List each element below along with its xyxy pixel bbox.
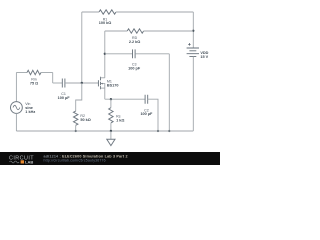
svg-text:http://circuitlab.com/c5rc5aut: http://circuitlab.com/c5rc5auty36776	[44, 159, 106, 163]
junction: R2 meets bottom rail	[75, 130, 77, 132]
wire: R2 bottom lead to bottom rail	[75, 125, 77, 131]
resistor RD	[127, 29, 143, 33]
wire: C3 row right segment to output corner	[135, 53, 169, 55]
wire: Rin row right lead to corner	[41, 72, 53, 74]
wire: Rs bottom lead to bottom rail	[110, 123, 112, 131]
voltage source Vin circle	[11, 102, 23, 114]
footer logo orange mark	[21, 160, 24, 163]
svg-text:1 kΩ: 1 kΩ	[116, 118, 124, 122]
wire: R2 drop with jog from gate node	[76, 83, 82, 111]
footer bar	[0, 152, 220, 165]
wire: Rin left vertical from Vin top	[15, 73, 17, 102]
wire: top row right segment from R1 to right rail	[116, 11, 193, 13]
svg-text:100 pF: 100 pF	[128, 66, 141, 70]
svg-text:75 Ω: 75 Ω	[30, 81, 38, 85]
wire: bottom rail	[16, 130, 193, 132]
resistor Rs	[109, 108, 113, 123]
svg-text:100 µF: 100 µF	[58, 96, 71, 100]
wire: top row left segment (R1 row, from corner to zigzag)	[82, 11, 99, 13]
junction: gate node (R1, C1, R2, gate)	[81, 82, 83, 84]
MOSFET M1 body stub with source tie	[101, 84, 105, 89]
wire: RD row left lead from drain vertical	[105, 30, 127, 32]
svg-text:2.2 kΩ: 2.2 kΩ	[129, 40, 141, 44]
wire: C1 row right segment to MOSFET gate	[65, 82, 98, 84]
wire: Vin bottom vertical to bottom rail	[15, 113, 17, 131]
junction: ground taps bottom rail	[110, 130, 112, 132]
wire: corner down from Rin row to C1 row	[52, 73, 54, 84]
junction: C3 branch meets bottom rail	[168, 130, 170, 132]
junction: Rs taps source row	[110, 98, 112, 100]
battery VDD plates	[187, 48, 199, 56]
ground stem	[110, 131, 112, 139]
MOSFET M1 source stub	[101, 87, 105, 89]
svg-text:100 µF: 100 µF	[140, 112, 153, 116]
resistor Rs top lead	[110, 99, 112, 108]
wire: R1 left lead from top row to gate node (vertical x=81.8)	[81, 12, 83, 83]
footer logo sine squiggle	[10, 161, 20, 163]
wire: source row from MOSFET to C2 left plate	[105, 98, 145, 100]
wire: right rail upper (top corner down to battery +)	[192, 12, 194, 48]
battery VDD plus sign	[188, 43, 191, 46]
ground symbol triangle	[107, 139, 115, 145]
wire: RD row right lead to right rail	[144, 30, 194, 32]
capacitor C2 plates	[145, 95, 148, 104]
wire: C3 right vertical down to bottom rail	[168, 54, 170, 131]
wire: right rail lower (battery - down to bottom rail)	[192, 56, 194, 131]
MOSFET M1 drain stub	[101, 77, 105, 79]
svg-text:50 kΩ: 50 kΩ	[80, 118, 90, 122]
svg-text:15 V: 15 V	[200, 55, 208, 59]
MOSFET M1 gate bar	[97, 80, 99, 86]
wire: C1 row left segment	[53, 82, 63, 84]
junction: C3 row taps drain vertical	[104, 53, 106, 55]
wire: C2 right segment and drop to bottom rail	[148, 99, 158, 131]
resistor R1	[99, 10, 116, 14]
capacitor C3 plates	[133, 49, 136, 58]
junction: C2 branch meets bottom rail	[157, 130, 159, 132]
svg-text:100 kΩ: 100 kΩ	[99, 21, 112, 25]
voltage source Vin sine mark	[13, 105, 20, 109]
wire: drain vertical from RD corner down to MOSFET drain	[104, 31, 106, 78]
junction: RD row meets right rail	[192, 30, 194, 32]
svg-text:LAB: LAB	[25, 159, 33, 164]
MOSFET M1 body arrow	[101, 83, 103, 85]
capacitor C1 plates	[62, 79, 65, 88]
MOSFET M1 channel dashes	[100, 77, 102, 90]
wire: C3 row left segment from drain node to left plate	[105, 53, 133, 55]
wire: Rin row left lead	[16, 72, 27, 74]
svg-text:BS170: BS170	[107, 84, 119, 88]
svg-text:1 kHz: 1 kHz	[25, 110, 35, 114]
wire: source vertical down to source row	[104, 88, 106, 99]
resistor R2	[74, 111, 78, 125]
resistor Rin	[27, 70, 41, 74]
